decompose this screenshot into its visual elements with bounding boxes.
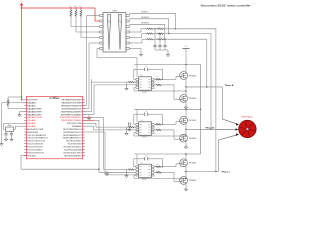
wire phase B output — [186, 128, 239, 130]
wire +5V right drop to comparator — [95, 8, 100, 21]
wire bridge C top rail — [134, 153, 200, 155]
svg-text:RC3/T0CKI/INT0: RC3/T0CKI/INT0 — [27, 149, 43, 151]
svg-text:PIC18F4431: PIC18F4431 — [49, 97, 60, 100]
wire OSC1 — [4, 123, 25, 129]
svg-text:RC6/TX/CK/SS: RC6/TX/CK/SS — [68, 144, 82, 146]
svg-text:Phase C: Phase C — [222, 171, 231, 173]
pin 34 U2 right — [60, 117, 85, 119]
svg-text:VSS/AVSS: VSS/AVSS — [72, 125, 82, 128]
svg-text:10k: 10k — [74, 6, 76, 8]
ground driver C input stub — [105, 171, 108, 176]
motor M1 BLDC — [239, 120, 256, 137]
resistor pulldown C — [127, 169, 135, 170]
wire bootstrap left leg A — [134, 69, 136, 79]
svg-text:LM339: LM339 — [112, 11, 117, 13]
wire PIC PWM1 to driver A LIN — [85, 85, 95, 115]
wire input HIN B — [96, 126, 136, 128]
wire PIC pin20 loop down — [21, 155, 27, 169]
power flag +V motor supply — [183, 46, 190, 64]
svg-text:RB7/KBI3/PGD/PWM7: RB7/KBI3/PGD/PWM7 — [61, 100, 82, 102]
svg-text:10k: 10k — [79, 6, 81, 8]
transistor QB low MOSFET — [180, 134, 188, 142]
ground driver B input — [128, 127, 131, 131]
svg-text:Phase B: Phase B — [206, 127, 215, 129]
svg-text:RA2/AN2/VREF-: RA2/AN2/VREF- — [27, 107, 42, 110]
wire comparator out1 to PIC — [85, 16, 100, 106]
wire input LIN B — [94, 129, 137, 131]
wire phase C output — [186, 133, 239, 171]
svg-text:22p: 22p — [2, 134, 4, 136]
svg-text:RC2/CCP1/FLTB: RC2/CCP1/FLTB — [27, 146, 43, 148]
wire bridge A top rail — [134, 64, 200, 66]
pin 21 U2 right — [64, 154, 84, 157]
node bus tap R1 — [70, 7, 72, 9]
resistor pulldown A — [127, 81, 135, 82]
pin 2 U2 left — [24, 102, 36, 105]
svg-text:AVSS/VSS2: AVSS/VSS2 — [27, 131, 39, 134]
pin 14 U2 left — [24, 137, 48, 140]
capacitor bootstrap C A — [134, 68, 163, 71]
resistor gate low A — [154, 84, 180, 99]
wire U1 pin5R to divider row B — [129, 34, 146, 38]
pin 9 U2 left — [24, 122, 36, 125]
microcontroller U2 PIC18F4431 — [27, 96, 83, 159]
svg-text:4.7: 4.7 — [157, 77, 159, 79]
wire input HIN C — [104, 169, 137, 171]
svg-text:1uF: 1uF — [145, 156, 147, 158]
resistor divider B1 — [146, 33, 154, 34]
svg-text:MCLR/VPP: MCLR/VPP — [27, 100, 38, 102]
wire bootstrap right leg C — [162, 159, 163, 168]
pin 39 U2 right — [61, 103, 84, 105]
transistor QA high MOSFET — [180, 72, 188, 80]
pin 32 U2 right — [67, 123, 85, 125]
pin 23 U2 right — [64, 148, 84, 151]
svg-text:RB2/PWM2/C2INA/SDI: RB2/PWM2/C2INA/SDI — [61, 113, 82, 116]
resistor gate high B — [154, 121, 180, 125]
wire divider row B to phase — [164, 33, 211, 35]
wire divider sense vertical A — [206, 39, 207, 88]
pin 1 U2 left — [24, 100, 38, 102]
svg-text:RC1/T1OSI/CCP2: RC1/T1OSI/CCP2 — [27, 144, 44, 146]
svg-text:4.7: 4.7 — [157, 127, 159, 129]
ground left edge — [0, 142, 3, 146]
node bus tap R3 — [80, 7, 82, 9]
svg-text:VDD/VDDCORE: VDD/VDDCORE — [67, 123, 82, 125]
svg-text:U4: U4 — [141, 120, 143, 122]
pin 28 U2 right — [63, 135, 85, 137]
svg-text:RB0/PWM0/C1INA/SS: RB0/PWM0/C1INA/SS — [62, 119, 83, 122]
svg-text:RA0/AN0: RA0/AN0 — [27, 102, 36, 105]
svg-text:RA3/AN3/VREF+: RA3/AN3/VREF+ — [27, 110, 43, 113]
svg-text:+5V: +5V — [20, 1, 23, 3]
pin 33 U2 right — [62, 119, 85, 122]
svg-text:RA1/AN1: RA1/AN1 — [27, 104, 36, 107]
transistor QC low MOSFET — [180, 177, 188, 185]
resistor divider C1 — [146, 28, 154, 29]
wire divider row A to phase — [164, 38, 207, 40]
svg-text:RD0/T0CKI/T5CKI: RD0/T0CKI/T5CKI — [27, 152, 44, 154]
wire input LIN C — [99, 171, 136, 173]
wire bootstrap right leg A — [162, 69, 163, 80]
op-amp driver U3 IR2101 A — [136, 77, 154, 90]
ground C1 — [4, 137, 7, 141]
wire +5V left vertical to MCLR — [21, 8, 23, 100]
svg-text:IR2101: IR2101 — [142, 91, 147, 93]
resistor R2 pull-up — [75, 9, 77, 18]
pin 7 U2 left — [24, 116, 42, 119]
pin 37 U2 right — [62, 108, 85, 110]
wire drain B high to rail — [185, 109, 186, 119]
wire bootstrap left leg C — [134, 159, 136, 167]
pin 31 U2 right — [72, 125, 85, 128]
wire VCC stub driver A — [136, 58, 138, 77]
wire bootstrap left leg B — [134, 114, 136, 124]
svg-text:RB1/PWM1/C1INB/SDO: RB1/PWM1/C1INB/SDO — [60, 117, 82, 119]
wire U1 pin4R to divider row C — [129, 29, 146, 32]
svg-text:IRFZ44N: IRFZ44N — [189, 138, 197, 140]
ground mid bus — [87, 116, 90, 120]
svg-text:Phase A: Phase A — [225, 84, 234, 87]
svg-text:IR2101: IR2101 — [142, 136, 147, 138]
svg-text:RB5/KBI1/PWM4/PGM: RB5/KBI1/PWM4/PGM — [61, 105, 82, 107]
svg-text:RD5/PWM4/RX/OC2: RD5/PWM4/RX/OC2 — [63, 135, 82, 137]
svg-text:RE1/AN7: RE1/AN7 — [27, 122, 36, 125]
wire source A low to ground — [184, 100, 187, 109]
wire R4 to PIC RA0 — [8, 107, 24, 109]
svg-text:+12V: +12V — [184, 46, 187, 48]
ground pulldown C — [125, 170, 128, 178]
node +5V corner — [21, 6, 23, 9]
svg-text:RC5/INT2/SCK/SCL: RC5/INT2/SCK/SCL — [64, 146, 83, 148]
wire R2 to U1 pin4 — [76, 17, 100, 32]
svg-text:BLDC Motor: BLDC Motor — [241, 116, 252, 119]
svg-text:RB3/PWM3/C2INB/INT: RB3/PWM3/C2INB/INT — [61, 111, 82, 113]
svg-text:RE0/AN6: RE0/AN6 — [27, 119, 36, 122]
svg-text:RC7/RX/DT/SDO: RC7/RX/DT/SDO — [66, 141, 82, 143]
wire U1 pin6R to divider row A — [129, 39, 146, 43]
capacitor C4 filter — [153, 28, 156, 50]
svg-text:RD2/SDI/SDA/INT2: RD2/SDI/SDA/INT2 — [64, 154, 82, 157]
svg-text:4.7: 4.7 — [157, 122, 159, 124]
wire phase A output — [186, 87, 239, 126]
svg-text:4.7: 4.7 — [157, 170, 159, 172]
wire comparator out2 to PIC — [85, 43, 100, 109]
pin 36 U2 right — [61, 111, 85, 113]
wire COM return B — [134, 133, 187, 137]
svg-text:RB6/KBI2/PGC/PWM6: RB6/KBI2/PGC/PWM6 — [61, 103, 82, 105]
ground bus stub mid — [88, 114, 90, 116]
pin 13 U2 left — [24, 134, 47, 137]
wire net MOSF C — [129, 13, 176, 29]
wire PIC PWM4 to driver B HIN — [85, 123, 97, 127]
resistor gate low C — [154, 172, 180, 182]
pin 15 U2 left — [24, 141, 45, 143]
wire PIC PWM3 to driver C LIN (red) — [85, 120, 100, 172]
pin 40 U2 right — [61, 100, 84, 102]
ground U1 right — [129, 49, 143, 57]
wire PIC RD to driver C COM loop — [85, 132, 137, 175]
svg-text:AVDD/VDDCORE: AVDD/VDDCORE — [27, 128, 44, 131]
pin 8 U2 left — [24, 119, 36, 122]
svg-text:RE2/AN8: RE2/AN8 — [27, 125, 36, 128]
wire input HIN A — [92, 81, 137, 83]
svg-text:MOSF A: MOSF A — [142, 21, 150, 24]
svg-text:RA5/AN5/LVDIN: RA5/AN5/LVDIN — [27, 116, 42, 119]
pin 3 U2 left — [24, 104, 36, 107]
capacitor bootstrap C B — [134, 113, 163, 116]
wire MCLR row — [21, 99, 27, 100]
pin 18 U2 left — [24, 149, 43, 151]
ground pulldown B — [125, 127, 128, 135]
pin 5 U2 left — [24, 110, 43, 113]
op-amp driver U5 IR2101 C — [136, 164, 154, 177]
+5V supply arrow — [20, 1, 23, 6]
pin 38 U2 right — [61, 105, 84, 107]
svg-text:4.7: 4.7 — [157, 164, 159, 166]
capacitor C2 — [10, 132, 13, 138]
wire divider sense vertical C — [215, 29, 216, 173]
svg-text:U3: U3 — [141, 75, 143, 77]
wire source B low to ground — [184, 140, 187, 149]
crystal X1 — [6, 127, 14, 132]
svg-text:10k: 10k — [69, 6, 71, 8]
pin 20 U2 left — [24, 155, 36, 157]
pin 10 U2 left — [24, 125, 36, 128]
resistor pulldown B — [127, 126, 135, 127]
wire drain C high to rail — [185, 153, 186, 161]
capacitor bootstrap C C — [134, 157, 163, 160]
wire VCC stub driver B — [136, 109, 138, 122]
svg-text:OSC2/CLKO/RA6/T1G: OSC2/CLKO/RA6/T1G — [27, 137, 48, 140]
op-amp U1 LM339 comparator DIP — [100, 13, 129, 53]
pin 4 U2 left — [24, 107, 42, 110]
pin 27 U2 right — [63, 137, 85, 140]
pin 6 U2 left — [24, 113, 42, 116]
pin 35 U2 right — [61, 113, 85, 116]
svg-text:IRFZ44N: IRFZ44N — [189, 120, 197, 122]
wire divider sense vertical B — [210, 34, 211, 130]
resistor divider A1 — [146, 38, 154, 39]
svg-text:4MHz: 4MHz — [8, 125, 12, 127]
ground RA2 stub — [18, 112, 25, 117]
svg-text:RC4/INT1/SDI/SDA: RC4/INT1/SDI/SDA — [64, 148, 82, 151]
svg-text:1uF: 1uF — [145, 66, 147, 68]
capacitor C8 driver B input — [129, 122, 131, 127]
pin 22 U2 right — [64, 152, 85, 154]
transistor QC high MOSFET — [180, 159, 188, 167]
pin 25 U2 right — [68, 144, 85, 146]
resistor gate low B — [154, 129, 180, 139]
svg-text:RD1/SDO: RD1/SDO — [27, 155, 36, 157]
pin 12 U2 left — [24, 131, 39, 134]
svg-text:RC0/T1OSO/T1CKI: RC0/T1OSO/T1CKI — [27, 141, 45, 143]
pin 19 U2 left — [24, 152, 44, 154]
wire caps common to ground — [155, 50, 168, 53]
svg-text:RD6/PWM6/TX/OC3: RD6/PWM6/TX/OC3 — [63, 132, 82, 134]
wire net MOSF A — [129, 24, 165, 40]
ground C2 — [10, 137, 13, 141]
wire R3 to U1 pin5 — [81, 17, 100, 37]
ground pulldown A — [125, 82, 128, 90]
pin 17 U2 left — [24, 146, 43, 148]
pin 24 U2 right — [64, 146, 85, 148]
wire VBUS vertical rail — [200, 65, 201, 155]
capacitor C6 filter — [163, 39, 166, 51]
wire PIC PWM2 to driver C HIN (red) — [85, 117, 104, 169]
ground divider cluster — [166, 53, 169, 57]
wire R1 to U1 pin3 — [71, 17, 100, 26]
wire bus to R4 — [8, 96, 22, 98]
wire net MOSF B — [129, 19, 169, 35]
wire left edge loop — [2, 103, 25, 142]
svg-text:RD7/PWM7/SS/OC4: RD7/PWM7/SS/OC4 — [63, 129, 82, 131]
wire source C low to ground — [184, 182, 187, 191]
wire phase node C — [185, 165, 186, 179]
wire phase node A — [185, 78, 186, 97]
resistor R3 pull-up — [80, 9, 82, 18]
wire +5V horizontal bus — [22, 7, 96, 9]
pin 30 U2 right — [63, 129, 84, 131]
capacitor C5 filter — [158, 33, 161, 50]
wire PIC PWM0 to driver A HIN — [85, 79, 92, 111]
svg-text:4.7: 4.7 — [157, 82, 159, 84]
svg-text:IRFZ44N: IRFZ44N — [189, 98, 197, 100]
svg-text:RD4/FLTA/INT3/OC1: RD4/FLTA/INT3/OC1 — [63, 137, 83, 140]
resistor divider A2 — [154, 38, 165, 39]
svg-text:RA4/AN4/CAP3: RA4/AN4/CAP3 — [27, 113, 42, 116]
wire OSC2 — [14, 126, 25, 129]
pin 16 U2 left — [24, 144, 44, 146]
wire U1 pin7 to driver VCC rail — [97, 49, 137, 58]
node bus tap R2 — [75, 7, 77, 9]
wire COM return A — [134, 88, 187, 92]
pin 29 U2 right — [63, 132, 84, 134]
wire COM return C — [134, 175, 187, 179]
transistor QB high MOSFET — [180, 117, 188, 125]
wire bridge B top rail — [134, 108, 200, 110]
wire bottom bus — [21, 169, 100, 170]
resistor gate high C — [154, 164, 180, 168]
wire bootstrap right leg B — [162, 114, 163, 125]
svg-text:OSC1/CLKI/RA7/FLT: OSC1/CLKI/RA7/FLT — [27, 134, 47, 137]
resistor divider C2 — [154, 28, 165, 29]
wire divider row C to phase — [164, 28, 216, 30]
resistor R1 pull-up — [70, 9, 72, 18]
svg-text:IRFZ44N: IRFZ44N — [189, 163, 197, 165]
svg-text:RB4/KBI0/PWM5/SCK: RB4/KBI0/PWM5/SCK — [62, 108, 83, 110]
svg-text:Sensorless BLDC motor controll: Sensorless BLDC motor controller — [201, 3, 252, 7]
svg-text:IRFZ44N: IRFZ44N — [189, 75, 197, 77]
pin 26 U2 right — [66, 141, 84, 143]
capacitor C1 — [4, 132, 7, 138]
wire VCC stub driver C — [136, 154, 138, 164]
svg-text:1uF: 1uF — [145, 111, 147, 113]
resistor gate high A — [154, 77, 180, 81]
resistor R4 MCLR — [7, 99, 9, 107]
svg-text:RD3/SCK/SCL/INT3: RD3/SCK/SCL/INT3 — [64, 152, 83, 154]
wire drain A high to rail — [185, 64, 186, 74]
wire phase node B — [185, 122, 186, 136]
pin 11 U2 left — [24, 128, 44, 131]
svg-text:U5: U5 — [141, 162, 143, 164]
resistor divider B2 — [154, 33, 165, 34]
transistor QA low MOSFET — [180, 95, 188, 103]
wire input LIN A — [94, 84, 136, 86]
svg-text:IRFZ44N: IRFZ44N — [189, 180, 197, 182]
op-amp driver U4 IR2101 B — [136, 122, 154, 135]
wire PIC PWM5 to driver B LIN — [85, 126, 94, 130]
svg-text:IR2101: IR2101 — [142, 179, 147, 181]
